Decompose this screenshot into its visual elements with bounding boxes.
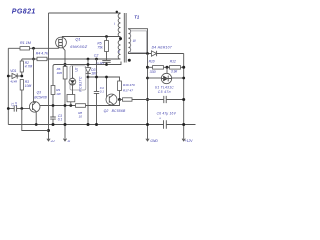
node: C4 top on H3	[95, 58, 98, 61]
wire: TL431 cathode lead	[166, 67, 168, 73]
svg-text:Q1: Q1	[75, 37, 80, 42]
resistor R6	[63, 67, 67, 80]
svg-text:PC817C: PC817C	[78, 76, 82, 92]
transformer secondary winding III	[128, 29, 130, 52]
svg-text:C2: C2	[94, 54, 99, 58]
node: +12V col R12 junction	[182, 66, 185, 69]
svg-text:R4 4.7k: R4 4.7k	[36, 52, 48, 56]
resistor R7	[118, 81, 122, 91]
wire: Q1 gate lead	[58, 46, 60, 48]
wire: Q3 collector	[34, 59, 36, 102]
svg-text:VD1: VD1	[10, 69, 16, 73]
node: GND col C5 junction	[146, 98, 149, 101]
wire: R1 to gate	[30, 47, 59, 49]
node: R1 output	[32, 47, 35, 50]
regulator U1 TL431	[161, 73, 171, 83]
wire: +12V column	[183, 54, 185, 141]
node: clamp column on rail	[87, 123, 90, 126]
svg-text:6NK60Z: 6NK60Z	[70, 44, 87, 49]
wire: long vertical V1 from top wire down to +U terminal	[48, 13, 50, 140]
resistor R5	[105, 41, 109, 52]
node: opto output on W105	[69, 104, 72, 107]
svg-text:R12: R12	[170, 60, 176, 64]
transformer winding II	[118, 40, 120, 59]
svg-text:R10: R10	[149, 60, 155, 64]
svg-text:1n 1kV: 1n 1kV	[96, 61, 106, 65]
svg-text:+: +	[159, 116, 161, 120]
capacitor C2	[102, 60, 110, 62]
resistor R1	[20, 47, 30, 50]
node: snubber top on drain wire	[105, 35, 108, 38]
wire: GND column	[147, 54, 149, 141]
wire: Q1 drain to transformer	[62, 37, 120, 38]
svg-text:Q2: Q2	[104, 109, 109, 113]
node: C2 on W64	[105, 63, 108, 66]
transformer core	[124, 13, 126, 63]
diode D3	[85, 68, 90, 73]
wire: R6 bottom down to rail	[64, 79, 66, 140]
wire: C1 row from rail	[8, 108, 14, 110]
wire: VD1 row	[8, 75, 21, 77]
terminal arrow -U	[63, 139, 66, 141]
wire: W105 continuation under Q2	[86, 100, 120, 106]
transformer primary winding I	[118, 14, 120, 38]
svg-text:330: 330	[150, 70, 156, 74]
capacitor C3	[50, 117, 56, 119]
node: C4 column on W77	[95, 76, 98, 79]
node: R6 column on W105	[64, 104, 67, 107]
terminal arrow +12V	[182, 139, 185, 141]
svg-text:I: I	[114, 22, 115, 26]
node: source / W64 junction	[64, 63, 67, 66]
wire: R12 right lead	[181, 66, 184, 68]
svg-text:GND: GND	[150, 139, 158, 143]
diode VD1	[12, 73, 17, 78]
wire: Q3 right output W105	[40, 105, 76, 107]
phase dot primary	[116, 11, 118, 13]
wire: Q1 source jog down	[62, 47, 65, 66]
optocoupler U2 box	[70, 66, 86, 90]
gray annotation box III	[130, 31, 146, 53]
svg-text:C5 47n: C5 47n	[158, 90, 171, 94]
svg-text:U1 TL431C: U1 TL431C	[155, 85, 174, 89]
resistor R8	[76, 104, 86, 108]
wire: snubber lead	[106, 37, 108, 41]
wire: C4 down to rail	[96, 93, 98, 124]
wire: LED cathode down	[72, 84, 74, 95]
node: VD1 cathode	[20, 75, 23, 78]
wire: C2 to W64	[106, 62, 108, 64]
opto transistor box	[67, 95, 75, 102]
svg-text:PG821: PG821	[12, 9, 36, 16]
wire: bottom rail right part after C6	[166, 124, 195, 126]
wire: opto LED feed from box top	[72, 66, 74, 79]
node: C4 on rail	[95, 123, 98, 126]
capacitor C4	[94, 91, 99, 93]
svg-text:1.0: 1.0	[14, 102, 18, 106]
wire: R11 row	[120, 99, 123, 101]
terminal arrow GND	[146, 139, 149, 141]
wire: Q3 emitter to rail	[35, 112, 37, 125]
svg-text:0.1: 0.1	[100, 89, 105, 93]
wire: TL431 left ref wire	[148, 77, 162, 79]
wire: D4 output to +12V column	[157, 53, 184, 55]
node: R10 R12 midpoint	[166, 66, 169, 69]
wire: TL431 right wire	[172, 77, 184, 79]
wire: R2 bottom lead	[21, 72, 23, 76]
resistor R2	[20, 61, 23, 72]
diode D4	[151, 51, 156, 56]
svg-text:10M: 10M	[25, 84, 32, 88]
node: Q3 emitter on rail	[35, 123, 38, 126]
node: W77 start	[87, 76, 90, 79]
node: LED anode	[72, 78, 74, 80]
transistor Q2	[106, 94, 117, 105]
wire: R9 bottom to C3	[52, 95, 54, 118]
svg-text:BC547B: BC547B	[34, 95, 47, 99]
wire: clamp column down to rail	[87, 73, 89, 124]
wire: W77 row to R7	[88, 77, 120, 81]
svg-text:75k: 75k	[97, 45, 103, 49]
node: R9 column on W105	[52, 104, 55, 107]
node: VD1 anode on rail	[7, 75, 10, 78]
wire: W64 row	[53, 62, 121, 86]
wire: secondary top loop	[128, 29, 147, 54]
capacitor C5	[164, 96, 166, 103]
wire: R7 bottom to node	[119, 91, 121, 100]
svg-text:D4 HER107: D4 HER107	[152, 46, 172, 50]
svg-text:R1 1M: R1 1M	[20, 41, 32, 45]
node: Q2 base on W77	[105, 76, 108, 79]
wire: top horizontal to transformer primary	[49, 12, 121, 14]
wire: bottom ground rail left part	[8, 124, 163, 126]
node: GND col R10 junction	[146, 66, 149, 69]
svg-text:4.7M: 4.7M	[25, 65, 33, 69]
svg-text:10: 10	[79, 114, 83, 118]
mosfet Q1	[56, 37, 67, 48]
transistor Q3	[29, 102, 40, 113]
svg-text:1R0: 1R0	[57, 71, 63, 75]
node: secondary junction	[146, 52, 149, 55]
resistor R3	[20, 80, 23, 91]
node: +12V col rail junction	[182, 123, 185, 126]
wire: secondary bottom to D4 row	[128, 52, 151, 54]
svg-text:U2: U2	[74, 67, 78, 71]
resistor R11	[123, 98, 133, 101]
phase dot secondary	[128, 59, 131, 62]
terminal arrow +U	[47, 139, 50, 141]
wire: left rail	[7, 48, 9, 124]
wire: C3 to rail	[52, 119, 54, 124]
wire: R5 to C2	[106, 52, 108, 61]
svg-text:0.1: 0.1	[58, 118, 63, 122]
wire: clamp diode lead	[87, 59, 89, 68]
node: R7 bottom junction	[118, 98, 121, 101]
svg-text:II: II	[118, 50, 120, 54]
node: +12V col TL431 junction	[182, 77, 185, 80]
node: base node	[20, 107, 23, 110]
resistor R9	[51, 86, 55, 95]
capacitor C6 electrolytic	[164, 120, 167, 129]
node: clamp diode top on H3	[87, 58, 90, 61]
wire: R1 row	[8, 47, 20, 49]
wire: R11 to C5	[132, 99, 164, 101]
wire: base node down across rail to W130	[22, 109, 49, 131]
node: H3 left junction	[32, 58, 35, 61]
wire: opto to W105	[70, 102, 72, 106]
node: winding tap	[119, 37, 122, 40]
node: GND col TL431 junction	[146, 77, 149, 80]
svg-text:4148: 4148	[10, 80, 17, 84]
LED of optocoupler	[69, 78, 76, 85]
wire: C4 column upper	[96, 59, 98, 91]
svg-text:Q3: Q3	[37, 91, 42, 95]
node: clamp column on W64	[87, 63, 90, 66]
svg-text:III: III	[133, 39, 136, 43]
node: R6 column on rail	[64, 123, 67, 126]
node: C1 on rail	[7, 107, 10, 110]
capacitor C1	[14, 105, 16, 111]
node: V1 junction with base wire	[47, 129, 50, 132]
node: +12V col C5 junction	[182, 98, 185, 101]
wire: R3 bottom lead down to base node	[21, 90, 23, 109]
wire: H3 feedback row	[22, 58, 121, 60]
wire: vertical from R1 node to H3	[33, 48, 35, 59]
svg-text:+12V: +12V	[185, 139, 194, 143]
wire: Q2 base column	[106, 77, 108, 97]
svg-text:BC556B: BC556B	[112, 109, 126, 113]
wire: R10 leads	[148, 66, 170, 68]
svg-text:3.9k: 3.9k	[171, 70, 178, 74]
svg-text:T1: T1	[134, 15, 140, 20]
resistor R4	[37, 57, 47, 61]
svg-text:C6 47μ 16V: C6 47μ 16V	[157, 111, 177, 115]
wire: C1 to base node	[17, 108, 31, 110]
wire: R2 top lead	[21, 59, 23, 61]
resistor R10	[153, 66, 164, 70]
svg-text:R17 47: R17 47	[123, 89, 133, 93]
node: GND col rail junction	[146, 123, 149, 126]
node: C3 on rail	[52, 123, 55, 126]
resistor R12	[170, 66, 181, 70]
wire: C5 to +12V column	[166, 99, 184, 101]
svg-text:R16 470: R16 470	[123, 83, 135, 87]
